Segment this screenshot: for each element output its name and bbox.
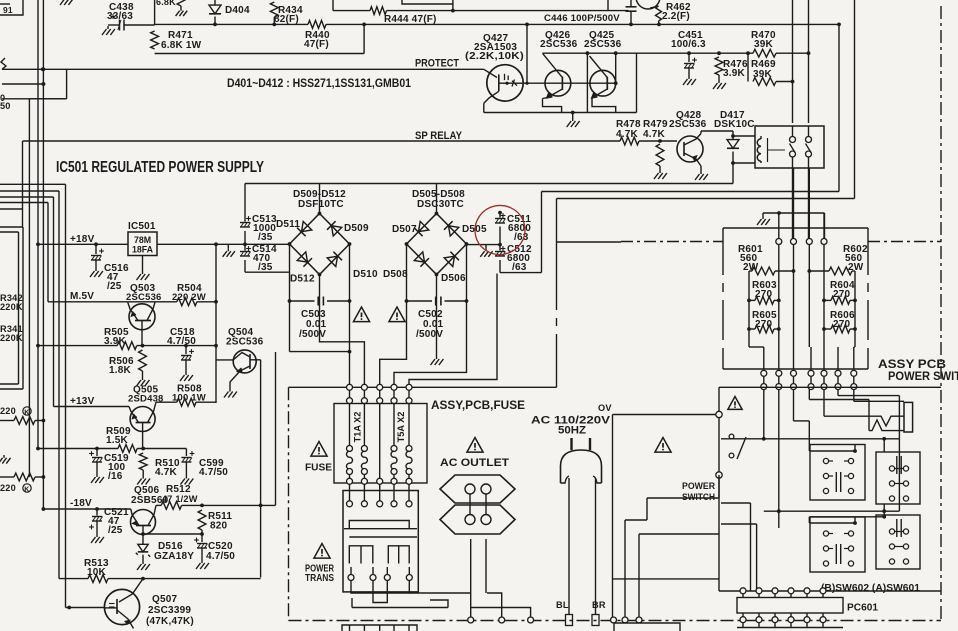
svg-text:50: 50 <box>0 101 11 111</box>
AC plug <box>561 438 602 483</box>
label D401-D412 <box>227 78 412 90</box>
svg-text:100 1W: 100 1W <box>172 393 206 404</box>
wire rail y191.5 <box>542 23 841 192</box>
capacitor C438 <box>102 2 155 35</box>
partial component box top-left <box>0 0 23 15</box>
svg-text:OV: OV <box>598 403 612 413</box>
svg-text:4.7K: 4.7K <box>643 129 666 140</box>
bridge rectifier D505-D508 <box>383 184 487 285</box>
power switch board box <box>719 387 941 591</box>
partial connector box bottom 2 <box>614 623 680 631</box>
label SW601 SW602 <box>821 583 920 594</box>
wire rail y198.5 <box>557 0 855 199</box>
svg-text:220K: 220K <box>0 333 23 343</box>
transistor Q425 <box>584 30 622 112</box>
svg-text:10K: 10K <box>87 567 107 578</box>
svg-text:Q507: Q507 <box>152 594 178 605</box>
capacitor C516 <box>91 242 129 292</box>
wire stub y209 <box>0 208 23 210</box>
wire transformer bottom jogs <box>351 581 531 618</box>
ground <box>137 561 150 570</box>
ground <box>224 389 237 398</box>
wire emitter common y112.5 <box>484 53 637 118</box>
wire bus corner x59 <box>0 191 59 579</box>
svg-text:D509: D509 <box>344 223 369 234</box>
svg-text:DSC30TC: DSC30TC <box>417 199 464 210</box>
wire riser x541.5 <box>541 192 543 273</box>
wire bridge1 left column <box>288 244 350 352</box>
connector circles row1 <box>347 384 413 390</box>
svg-text:FUSE: FUSE <box>305 462 332 474</box>
wire plug leads BL BR <box>556 478 606 626</box>
svg-text:D506: D506 <box>441 273 466 284</box>
ground <box>654 170 667 179</box>
ground <box>757 216 770 225</box>
svg-text:220: 220 <box>0 483 16 493</box>
svg-text:2W: 2W <box>848 262 864 273</box>
wire C512 column down <box>409 274 497 385</box>
svg-text:AC OUTLET: AC OUTLET <box>440 457 509 469</box>
transistor Q426 <box>540 30 587 112</box>
wire R513 line y578.6 <box>59 577 261 581</box>
svg-text:100/6.3: 100/6.3 <box>671 39 706 50</box>
left vertical bus x43.4 <box>42 0 46 511</box>
svg-text:GZA18Y: GZA18Y <box>154 551 194 562</box>
transistor Q428 <box>669 110 733 171</box>
wire PROTECT line <box>1 58 484 99</box>
resistor R601 <box>738 244 794 300</box>
ground <box>695 171 708 180</box>
fuse F1 <box>347 404 353 484</box>
switch unit SW TL <box>810 445 865 501</box>
wire +13V line <box>54 396 130 407</box>
capacitor C511 <box>495 213 531 243</box>
ground <box>683 76 696 85</box>
svg-text:ASSY,PCB,FUSE: ASSY,PCB,FUSE <box>431 400 525 412</box>
wire switch matrix row y438.8 <box>721 437 899 452</box>
resistor R603 <box>747 280 781 304</box>
wire riser x587.4 <box>586 51 608 112</box>
resistor 6.8K (partial) <box>156 0 185 8</box>
connector circles power switch bottom <box>740 588 826 594</box>
wire regulator node x216 <box>214 243 233 404</box>
wire +18V <box>38 234 128 245</box>
wire bridge1 right column <box>348 244 352 385</box>
svg-text:-18V: -18V <box>70 498 92 509</box>
svg-text:4.7/50: 4.7/50 <box>206 551 235 562</box>
svg-text:220: 220 <box>0 406 16 416</box>
transistor Q504 <box>226 327 264 578</box>
wire R505 line y345.6 <box>38 344 216 348</box>
svg-text:D401~D412 : HSS271,1SS131,GMB0: D401~D412 : HSS271,1SS131,GMB01 <box>227 78 412 90</box>
svg-text:DSK10C: DSK10C <box>714 119 755 130</box>
svg-text:D512: D512 <box>290 274 315 285</box>
wire main vertical x154 <box>154 0 156 25</box>
zener D516 <box>136 534 194 562</box>
warning triangle FUSE <box>305 442 332 474</box>
AC outlet socket 2 <box>440 505 515 534</box>
svg-text:2SC3399: 2SC3399 <box>148 605 191 616</box>
ground <box>180 476 193 485</box>
svg-text:39K: 39K <box>753 69 773 80</box>
svg-text:1.5K: 1.5K <box>106 435 129 446</box>
warning triangle <box>655 438 671 453</box>
svg-text:47 1/2W: 47 1/2W <box>162 494 198 504</box>
node on L1 <box>451 9 455 13</box>
svg-text:91: 91 <box>3 5 13 15</box>
svg-text:D507: D507 <box>392 224 417 235</box>
resistor R478 <box>616 119 641 145</box>
capacitor C446 <box>544 0 637 26</box>
svg-text:3.9K: 3.9K <box>723 68 746 79</box>
resistor R469 <box>746 51 794 85</box>
warning triangle <box>467 438 483 453</box>
wire bus x29.4 <box>29 99 66 477</box>
ground <box>196 560 209 569</box>
diode D417 <box>714 110 755 184</box>
ground <box>223 244 235 257</box>
svg-text:/500V: /500V <box>299 329 326 340</box>
svg-text:D511: D511 <box>276 219 300 230</box>
label IC501 REGULATED POWER SUPPLY <box>56 159 265 176</box>
svg-text:K: K <box>24 487 29 494</box>
capacitor C514 <box>240 244 277 273</box>
wire Q427 collector riser <box>525 23 529 85</box>
resistor R471 <box>151 30 202 51</box>
svg-text:82(F): 82(F) <box>274 14 299 25</box>
wire switch matrix row y511.2 <box>764 439 900 513</box>
svg-text:K: K <box>24 410 29 417</box>
ground <box>91 534 104 543</box>
resistor R470 <box>751 30 776 57</box>
wire IC501 output y244.3 <box>157 242 290 246</box>
capacitor C521 <box>89 507 129 536</box>
wire bridge2 bottom to ground <box>431 275 444 366</box>
svg-text:C446 100P/500V: C446 100P/500V <box>544 13 620 24</box>
relay K1 <box>755 126 824 168</box>
capacitor C502 <box>407 297 467 341</box>
wire R60x columns <box>749 271 855 347</box>
bridge rectifier D509-D512 <box>276 184 378 285</box>
svg-text:2SC536: 2SC536 <box>126 292 162 303</box>
label D505-D508 DSC30TC <box>412 189 465 210</box>
svg-text:6.8K: 6.8K <box>156 0 176 7</box>
warning triangle <box>353 307 369 322</box>
svg-text:2SC536: 2SC536 <box>584 39 622 50</box>
wire bus corner x48 <box>0 203 48 302</box>
label D509-D512 DSF10TC <box>293 189 346 210</box>
resistor R479 <box>643 119 668 170</box>
ground <box>137 271 150 280</box>
resistor 220K left edge 1 <box>0 406 43 424</box>
switch unit SW TR <box>876 452 920 504</box>
svg-text:(47K,47K): (47K,47K) <box>146 616 194 627</box>
svg-text:/25: /25 <box>108 525 123 536</box>
wire bridge2 right to C511 node <box>467 244 501 246</box>
svg-text:2SC536: 2SC536 <box>226 337 264 348</box>
svg-text:270: 270 <box>833 289 851 300</box>
transistor Q507 <box>104 579 194 629</box>
svg-text:6.8K 1W: 6.8K 1W <box>161 40 202 51</box>
wire switch box left risers <box>721 503 757 591</box>
wire funnel to connector rows <box>764 347 854 369</box>
svg-text:/35: /35 <box>258 232 273 243</box>
svg-text:/35: /35 <box>258 262 273 273</box>
wire rail y53.2 <box>543 51 811 55</box>
svg-text:+13V: +13V <box>70 396 95 407</box>
dash-dot border left <box>288 387 290 620</box>
connector circles row y373 <box>761 370 857 376</box>
ground <box>180 372 193 381</box>
warning triangle POWER TRANS <box>305 544 335 585</box>
wire rail y183.5 <box>245 183 733 185</box>
resistor R512 <box>156 484 276 509</box>
resistor R606 <box>822 310 857 333</box>
svg-text:SP RELAY: SP RELAY <box>415 130 463 142</box>
box R601 network <box>723 228 868 369</box>
resistor R602 <box>809 244 868 300</box>
ground <box>713 80 726 89</box>
wire switch matrix verticals <box>764 389 854 513</box>
connector circles row2 <box>347 390 413 404</box>
svg-text:TRANS: TRANS <box>305 573 334 584</box>
transistor Q506 <box>131 485 169 536</box>
wire -18V line <box>43 498 130 509</box>
resistor R440 <box>304 21 330 51</box>
svg-text:/25: /25 <box>107 281 122 292</box>
svg-text:47(F): 47(F) <box>304 39 329 50</box>
partial connector box bottom 3 <box>737 623 843 628</box>
svg-text:820: 820 <box>210 521 228 532</box>
wire bridge1 bottom jog <box>320 275 365 385</box>
svg-text:4.7K: 4.7K <box>616 129 639 140</box>
connector circles below PC601 <box>740 617 826 623</box>
power transformer T1 box <box>343 478 418 592</box>
connector circles bottom rail <box>468 617 642 623</box>
svg-text:4.7K: 4.7K <box>155 467 178 478</box>
wire riser x615.7 <box>614 51 618 85</box>
svg-text:T5A X2: T5A X2 <box>396 412 406 443</box>
wire R509 line y447.3 <box>38 447 186 451</box>
svg-text:M.5V: M.5V <box>70 291 94 302</box>
wire stub to switch box y578.9 <box>613 578 720 580</box>
ground <box>176 8 188 16</box>
wire rail L1 y10.6 with R444 <box>333 0 629 11</box>
ground <box>90 268 103 277</box>
label AC 110/220V 50HZ <box>531 415 611 437</box>
wire bus corner x53.5 <box>0 197 54 407</box>
resistor R513 <box>84 558 109 583</box>
diode D404 <box>209 0 250 26</box>
wire C512 bottom rail y272.6 <box>500 272 542 274</box>
switch unit SW BL <box>810 517 865 572</box>
svg-text:220 2W: 220 2W <box>172 292 206 303</box>
svg-text:39K: 39K <box>754 39 774 50</box>
resistor R604 <box>822 280 857 304</box>
switch unit SW BR <box>876 515 920 569</box>
wire switch matrix lower rows <box>779 511 886 528</box>
svg-text:POWER: POWER <box>682 481 715 492</box>
capacitor C503 <box>290 297 350 341</box>
resistor R506 <box>109 350 146 377</box>
wire switch lower feed <box>625 475 719 617</box>
dash-dot border top segment <box>621 241 941 243</box>
label ASSY PCB POWER SWITCH <box>878 357 958 383</box>
svg-text:IC501: IC501 <box>128 221 156 232</box>
label 0 /50 left edge <box>0 93 11 111</box>
warning triangle <box>389 307 405 322</box>
power switch S1 <box>682 411 746 503</box>
wire bridge2 left column <box>380 244 409 385</box>
wire SP RELAY line <box>23 130 678 227</box>
svg-text:BR: BR <box>592 600 606 610</box>
svg-text:/500V: /500V <box>416 329 443 340</box>
capacitor C451 <box>671 30 706 76</box>
resistor R509 <box>106 426 137 452</box>
resistor R444 <box>370 7 437 25</box>
transistor Q505 <box>128 385 164 448</box>
resistor R476 <box>715 51 748 80</box>
svg-text:T1A X2: T1A X2 <box>353 412 363 443</box>
svg-text:PC601: PC601 <box>847 603 878 614</box>
component box top-middle <box>402 0 453 11</box>
svg-text:R444 47(F): R444 47(F) <box>384 14 437 25</box>
svg-text:270: 270 <box>833 319 851 330</box>
resistor R434 <box>270 2 303 26</box>
wire speaker column x792.5 <box>792 0 794 239</box>
resistor R605 <box>747 310 781 333</box>
wire outlet leads <box>470 494 486 617</box>
regulator IC501 <box>128 221 157 271</box>
svg-text:2.2(F): 2.2(F) <box>662 11 690 22</box>
wire bus corner x65.5 <box>0 184 104 609</box>
ground <box>137 476 150 485</box>
resistor R511 <box>198 510 232 534</box>
resistor R505 <box>104 327 137 350</box>
wire R601 feed columns <box>779 168 824 273</box>
svg-text:/16: /16 <box>108 471 123 482</box>
resistor R508 <box>156 384 216 407</box>
fuse box <box>334 404 427 484</box>
wire C513 column x245 <box>245 184 290 273</box>
ground <box>91 474 104 483</box>
resistor R504 <box>172 283 206 306</box>
partial connector box bottom 1 <box>342 625 417 631</box>
svg-text:2SC536: 2SC536 <box>540 39 578 50</box>
wire M.5V line y301.8 <box>48 291 218 304</box>
label ASSY,PCB,FUSE <box>431 400 525 412</box>
svg-text:POWER SWIT: POWER SWIT <box>888 369 958 383</box>
svg-text:IC501 REGULATED POWER SUPPLY: IC501 REGULATED POWER SUPPLY <box>56 159 265 176</box>
svg-text:PROTECT: PROTECT <box>415 58 459 70</box>
wire L3 return <box>155 23 366 54</box>
wire ground feed y213 <box>763 211 825 239</box>
capacitor C519 <box>89 449 129 483</box>
AC outlet socket 1 <box>440 475 515 503</box>
resistor 220K left edge 2 <box>0 473 43 493</box>
ground <box>567 118 580 127</box>
connector circles on dash-dot y241.5 <box>776 239 827 245</box>
svg-text:220K: 220K <box>0 302 23 312</box>
capacitor C518 <box>167 327 196 372</box>
label AC OUTLET <box>440 457 509 469</box>
capacitor C513 <box>240 214 277 243</box>
svg-text:DSF10TC: DSF10TC <box>298 199 344 210</box>
fuse F2 <box>361 404 367 484</box>
wire C511 column x500 <box>498 211 502 273</box>
svg-text:4.7/50: 4.7/50 <box>167 336 196 347</box>
dash-dot border bottom <box>289 620 942 622</box>
svg-text:(B)SW602 (A)SW601: (B)SW602 (A)SW601 <box>821 583 920 594</box>
connector circles row y386.5 <box>761 376 857 390</box>
svg-text:D404: D404 <box>225 5 250 16</box>
ground <box>480 245 492 257</box>
svg-text:1.8K: 1.8K <box>109 365 132 376</box>
svg-text:2SC536: 2SC536 <box>669 119 707 130</box>
box R341/R342 (partial) <box>0 227 23 389</box>
svg-text:78M: 78M <box>134 235 151 245</box>
capacitor C599 <box>181 449 228 479</box>
svg-text:4.7/50: 4.7/50 <box>199 467 228 478</box>
wire riser x556.5 and dash-dot border start <box>557 199 622 388</box>
ground <box>0 455 11 464</box>
opto device Q427 <box>465 33 562 113</box>
ground <box>60 0 73 5</box>
connector box PC601 <box>737 594 878 617</box>
wire fuse mid lines <box>379 404 381 490</box>
wire connector row y387.3 <box>289 386 557 388</box>
wire bridge2 right column <box>394 244 468 385</box>
wire rail L2 y24.4 <box>155 23 839 25</box>
svg-text:BL: BL <box>556 600 569 610</box>
wire switch matrix row y451 <box>809 445 857 453</box>
transistor Q4xx (partial) and resistor R462 <box>636 0 691 26</box>
ground <box>137 377 150 386</box>
warning triangle <box>728 397 742 410</box>
resistor R510 <box>139 453 180 478</box>
svg-text:(2.2K,10K): (2.2K,10K) <box>465 51 524 62</box>
capacitor C512 <box>495 244 532 273</box>
dash-dot border right <box>940 6 942 621</box>
left vertical bus x38 <box>36 0 40 450</box>
svg-text:D510: D510 <box>353 269 378 280</box>
svg-text:+18V: +18V <box>70 234 95 245</box>
wire switch matrix top jogs <box>809 396 912 439</box>
transistor Q503 <box>126 283 162 346</box>
svg-text:/63: /63 <box>512 262 527 273</box>
fuse F4 <box>406 404 412 484</box>
svg-text:3.9K: 3.9K <box>104 336 127 347</box>
capacitor C520 <box>194 534 235 562</box>
svg-text:50HZ: 50HZ <box>558 425 586 437</box>
wire speaker column x808.5 <box>808 0 810 239</box>
wire OV feed <box>598 403 716 617</box>
svg-text:18FA: 18FA <box>132 245 154 255</box>
svg-text:D508: D508 <box>383 269 408 280</box>
wire emitter node y534 <box>143 532 204 536</box>
wire riser x275.5 <box>275 352 277 505</box>
red annotation circle <box>470 201 529 259</box>
fuse F3 <box>391 404 397 484</box>
wire stub left y84 <box>2 82 45 86</box>
